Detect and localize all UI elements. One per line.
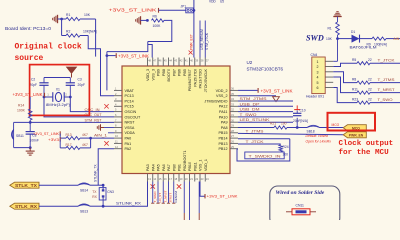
svg-text:NRST: NRST — [125, 121, 136, 125]
svg-text:PB0: PB0 — [172, 164, 176, 171]
svg-text:PB14: PB14 — [218, 137, 227, 141]
svg-text:JTMS/SWDIO: JTMS/SWDIO — [204, 99, 227, 103]
svg-text:SB11: SB11 — [16, 134, 24, 138]
svg-text:PA0: PA0 — [125, 137, 132, 141]
svg-text:PB8: PB8 — [162, 69, 166, 76]
net T_SWO — [238, 116, 293, 118]
svg-text:T_JTCK: T_JTCK — [246, 139, 264, 144]
svg-text:100K: 100K — [153, 24, 162, 28]
svg-text:R2: R2 — [66, 30, 70, 34]
wire STLK_TX row — [39, 184, 78, 186]
mcu bottom pins — [146, 151, 209, 182]
svg-text:R24: R24 — [283, 145, 289, 149]
svg-text:PB7: PB7 — [172, 69, 176, 76]
svg-text:T_SWDIO_IN: T_SWDIO_IN — [249, 153, 281, 158]
svg-text:X1: X1 — [56, 88, 60, 92]
svg-text:100K: 100K — [17, 109, 26, 113]
svg-text:4: 4 — [317, 76, 319, 80]
svg-text:VDD_2: VDD_2 — [216, 89, 228, 93]
svg-text:8MHz(3.2pF): 8MHz(3.2pF) — [46, 103, 70, 107]
svg-text:C3: C3 — [78, 78, 82, 82]
resistor R13 4K7 — [59, 134, 61, 139]
svg-text:STM_JTMS: STM_JTMS — [240, 96, 267, 101]
net flag STLK_TX — [10, 182, 39, 188]
svg-text:AIN_1: AIN_1 — [94, 133, 108, 138]
svg-text:PA8: PA8 — [221, 126, 228, 130]
svg-text:T_SWO: T_SWO — [378, 97, 393, 102]
svg-text:Board Ident: PC13=0: Board Ident: PC13=0 — [5, 26, 52, 31]
svg-text:PWR_EN: PWR_EN — [349, 134, 364, 138]
svg-text:PC14: PC14 — [125, 99, 134, 103]
svg-text:6: 6 — [317, 86, 319, 90]
svg-text:PC13: PC13 — [125, 94, 134, 98]
svg-text:OSCIN: OSCIN — [125, 110, 137, 114]
svg-text:+3V3_ST_LINK: +3V3_ST_LINK — [207, 193, 238, 198]
svg-text:PA12: PA12 — [219, 105, 228, 109]
svg-text:RX: RX — [92, 195, 97, 199]
svg-text:22: 22 — [368, 58, 372, 62]
net flag STLK_RX — [10, 203, 39, 209]
power +3V3 symbol at R6 — [140, 16, 142, 24]
power +3V3 symbol SWD — [333, 16, 341, 18]
svg-text:PB4/NJTRST: PB4/NJTRST — [188, 68, 192, 91]
svg-text:LD_ST: LD_ST — [158, 193, 162, 203]
solder bridge SB11 — [13, 122, 15, 147]
wire STM_JTCK stub — [204, 21, 206, 58]
svg-text:Clock output: Clock output — [339, 140, 394, 148]
resistor R2 10K[N/A] — [61, 19, 63, 36]
wire SB11 bottom — [14, 147, 31, 149]
bottom pin wires with end ticks — [152, 182, 154, 204]
svg-text:4K7: 4K7 — [82, 143, 88, 147]
svg-text:USB_DP: USB_DP — [240, 101, 260, 106]
svg-text:+3V3_ST_LINK: +3V3_ST_LINK — [261, 88, 293, 93]
svg-text:+3V3_ST_LINK: +3V3_ST_LINK — [109, 8, 157, 13]
svg-text:PB6: PB6 — [178, 69, 182, 76]
svg-text:BAT60JFILM: BAT60JFILM — [350, 46, 377, 50]
net STM_JTMS — [238, 100, 293, 102]
node bus junction — [106, 54, 109, 57]
svg-text:10K: 10K — [84, 13, 91, 17]
svg-text:JTCK/SWCLK: JTCK/SWCLK — [204, 68, 208, 92]
wire PB2 down to bottom edge — [183, 182, 185, 214]
svg-text:R23: R23 — [352, 97, 358, 101]
svg-text:RENUM: RENUM — [174, 191, 178, 203]
svg-text:VDD_1: VDD_1 — [204, 159, 208, 171]
svg-text:10K: 10K — [326, 37, 333, 41]
red box original clock source — [30, 65, 90, 116]
boxed net T_SWDIO_IN — [245, 152, 284, 159]
svg-text:T_NRST: T_NRST — [163, 190, 167, 202]
svg-text:PA2: PA2 — [125, 147, 132, 151]
svg-text:STLINK_RX: STLINK_RX — [116, 201, 141, 206]
svg-text:STM_RST: STM_RST — [85, 118, 103, 123]
wire cap top rail — [44, 77, 70, 79]
svg-text:R1: R1 — [66, 13, 70, 17]
no-connect marks on bottom pins — [151, 184, 155, 188]
svg-text:22: 22 — [368, 77, 372, 81]
svg-text:22: 22 — [368, 87, 372, 91]
svg-text:PB2/BOOT1: PB2/BOOT1 — [183, 151, 187, 172]
svg-text:PB9: PB9 — [157, 69, 161, 76]
svg-text:U5: U5 — [220, 0, 224, 4]
svg-text:R9: R9 — [367, 43, 371, 47]
no-connect PC15 — [104, 104, 108, 108]
power label +3V3_ST_LINK at VBAT bus — [107, 55, 116, 57]
svg-text:PA7: PA7 — [167, 164, 171, 171]
svg-text:PA10: PA10 — [219, 115, 228, 119]
svg-text:PA5: PA5 — [157, 164, 161, 171]
svg-text:PA6: PA6 — [162, 164, 166, 171]
svg-text:T_SWO: T_SWO — [153, 191, 157, 203]
net LED_STLINK — [238, 121, 293, 123]
wire SWD rail down to CN4 pin1 — [337, 39, 339, 62]
resistor R3 10K vertical — [336, 22, 340, 35]
svg-text:U2: U2 — [247, 60, 253, 65]
svg-text:2: 2 — [317, 65, 319, 69]
wire AIN_1 down — [90, 138, 92, 148]
svg-text:STM32F103CBT6: STM32F103CBT6 — [247, 66, 284, 71]
svg-text:Wired on Solder Side: Wired on Solder Side — [276, 190, 325, 196]
node ground junction — [29, 146, 32, 149]
svg-text:STLINK_TX: STLINK_TX — [94, 164, 98, 182]
diode D1 BAT60JFILM — [338, 38, 352, 40]
svg-text:CN11: CN11 — [296, 203, 305, 207]
svg-text:+3V3: +3V3 — [48, 137, 60, 142]
solder bridge SB13 — [78, 204, 90, 206]
svg-text:R6: R6 — [153, 14, 157, 18]
svg-text:PA3: PA3 — [146, 164, 150, 171]
svg-text:PA1: PA1 — [125, 142, 132, 146]
node AIN_1 — [89, 137, 92, 140]
svg-text:R11: R11 — [352, 87, 358, 91]
svg-text:R21: R21 — [270, 122, 276, 126]
svg-text:PB10: PB10 — [188, 162, 192, 171]
svg-text:PB11: PB11 — [193, 162, 197, 171]
svg-text:STLK_RX: STLK_RX — [15, 204, 37, 209]
svg-text:5: 5 — [317, 81, 319, 85]
wire VBAT bus vertical — [106, 52, 108, 91]
net flag PWR_EN — [343, 132, 366, 138]
power symbol VSSA — [104, 127, 114, 129]
svg-text:CN4: CN4 — [311, 53, 318, 57]
node SB13 junction — [102, 205, 105, 208]
mcu right pins — [204, 87, 238, 152]
svg-text:LED_STLINK: LED_STLINK — [240, 117, 270, 122]
wire STM_RST rail — [14, 121, 114, 123]
node SWD rail junction — [336, 37, 339, 40]
wire VDDA stub — [108, 132, 114, 134]
svg-text:20pF: 20pF — [30, 83, 38, 87]
mcu U2 STM32F103CBT6 body — [122, 66, 230, 174]
svg-text:PB15: PB15 — [218, 131, 227, 135]
svg-text:VDD: VDD — [209, 0, 216, 4]
net USB_DP — [238, 105, 293, 107]
mcu left pins — [114, 87, 141, 152]
net AIN_1 wire to PA0 — [91, 137, 114, 139]
svg-text:VDDA: VDDA — [125, 131, 136, 135]
svg-text:for the MCU: for the MCU — [339, 149, 390, 157]
svg-text:R13: R13 — [66, 133, 72, 137]
wire CN4 pin1 to SWD rail — [333, 60, 337, 62]
node JP1 output junction — [193, 9, 196, 12]
svg-text:T_JTMS: T_JTMS — [378, 77, 395, 82]
svg-text:PB13: PB13 — [218, 142, 227, 146]
svg-text:SB18: SB18 — [307, 129, 315, 133]
box Wired on Solder Side — [270, 186, 340, 226]
solder bridge SB18 — [297, 127, 307, 129]
mcu top pins — [146, 58, 209, 93]
svg-text:PA9: PA9 — [221, 121, 228, 125]
resistor R11 22 to T_NRST — [333, 77, 357, 93]
wire OSC_OUT — [44, 97, 114, 117]
node C10 junction — [296, 126, 299, 129]
svg-text:100[N/A]: 100[N/A] — [374, 43, 387, 47]
node CN3 pin1 — [102, 184, 105, 187]
ground at crystal caps — [67, 67, 77, 73]
capacitor C3 20pF — [69, 78, 71, 83]
svg-text:100: 100 — [281, 122, 287, 126]
svg-text:PC15: PC15 — [125, 105, 134, 109]
solder bridge SB14 — [78, 183, 90, 185]
wire JP1 down to BOOT0 pin — [193, 10, 195, 57]
svg-text:10K[N/A]: 10K[N/A] — [83, 30, 97, 34]
capacitor C10 20pF[N/A] — [296, 118, 298, 128]
wire PB11 down to bottom edge — [198, 182, 200, 214]
svg-text:D1: D1 — [351, 30, 355, 34]
svg-text:C10: C10 — [300, 109, 306, 113]
svg-text:VDD_3: VDD_3 — [146, 69, 150, 81]
svg-text:R8: R8 — [352, 77, 356, 81]
power +3V3 symbol top-left — [57, 15, 59, 23]
svg-text:JTRST: JTRST — [169, 193, 173, 203]
svg-text:PA11: PA11 — [219, 110, 227, 114]
svg-text:R1: R1 — [328, 27, 332, 31]
wire from R6 node down-left to bus — [107, 42, 148, 52]
connector CN3 — [99, 188, 106, 200]
svg-text:1: 1 — [317, 60, 319, 64]
resistor R5 22 to T_JTCK — [333, 63, 357, 66]
svg-text:R14: R14 — [18, 104, 24, 108]
wire STLINK_RX to PA3 — [103, 182, 147, 207]
svg-text:4K7: 4K7 — [82, 133, 88, 137]
resistor R8 22 to T_JTMS — [333, 72, 357, 83]
resistor R21 100 on MCO — [238, 127, 274, 129]
wire STLK_RX row — [39, 205, 78, 207]
resistor R23 22 to T_SWO — [333, 88, 357, 103]
svg-text:VBAT: VBAT — [125, 89, 135, 93]
svg-text:SB13: SB13 — [80, 209, 88, 213]
node R6 left junction — [146, 19, 149, 22]
svg-text:C2: C2 — [31, 78, 35, 82]
svg-text:PB12: PB12 — [218, 147, 227, 151]
svg-text:PA15/JTDI: PA15/JTDI — [193, 69, 197, 87]
node R14 bottom — [29, 121, 32, 124]
svg-text:PB1: PB1 — [178, 164, 182, 171]
node crystal right — [69, 96, 72, 99]
capacitor C2 20pF — [43, 78, 45, 83]
svg-text:T_NRST: T_NRST — [378, 87, 396, 92]
svg-text:source: source — [15, 54, 44, 63]
svg-text:STLK_TX: STLK_TX — [15, 183, 37, 188]
wire JP1 to top edge — [193, 0, 195, 10]
red box MCO — [328, 113, 376, 131]
ground below C8 — [29, 148, 31, 152]
svg-text:22: 22 — [368, 97, 372, 101]
svg-text:SB14: SB14 — [80, 188, 88, 192]
wire R6 to bus corner — [148, 20, 172, 41]
no-connect PA1 — [104, 141, 108, 145]
net USB_DM — [238, 111, 293, 113]
wire OSC_IN — [70, 97, 114, 112]
svg-text:VSSA: VSSA — [125, 126, 135, 130]
power label +3V3_ST_LINK at VDD_1 — [200, 182, 205, 197]
net flag MCO — [343, 125, 366, 131]
svg-text:OSCOUT: OSCOUT — [125, 115, 142, 119]
svg-text:OSC_IN: OSC_IN — [85, 107, 100, 112]
net T_JTCK row — [238, 138, 290, 140]
node crystal left — [43, 96, 46, 99]
wire T_JTMS to PWR_EN — [238, 133, 343, 134]
svg-text:AIN: AIN — [394, 37, 400, 41]
svg-text:T_JTCK: T_JTCK — [378, 57, 395, 62]
svg-text:+3V3_ST_LINK: +3V3_ST_LINK — [33, 131, 59, 136]
svg-text:PWR_EXT: PWR_EXT — [189, 34, 193, 50]
svg-text:VSS_1: VSS_1 — [199, 160, 203, 171]
power ground VSS_2 — [238, 95, 276, 97]
svg-text:3: 3 — [317, 70, 319, 74]
svg-text:VSS_2: VSS_2 — [216, 94, 227, 98]
svg-text:100: 100 — [283, 153, 289, 157]
resistor R24 100 vertical — [238, 143, 281, 145]
svg-text:+3V3_ST_LINK: +3V3_ST_LINK — [13, 92, 43, 97]
wire JP1 left — [159, 9, 186, 11]
resistor R17 4K7 — [59, 139, 61, 148]
svg-text:R5: R5 — [352, 58, 356, 62]
svg-text:VSS_3: VSS_3 — [151, 69, 155, 80]
resistor R1 10K — [62, 18, 66, 20]
svg-text:R17: R17 — [66, 143, 72, 147]
wire R1 right down to +3V3_ST_LINK rail — [95, 19, 97, 57]
svg-text:T_SWO: T_SWO — [240, 112, 257, 117]
svg-text:100nF: 100nF — [30, 138, 39, 142]
svg-text:PB5: PB5 — [183, 69, 187, 76]
wire PB10 down to bottom edge — [189, 182, 191, 221]
svg-text:PA4: PA4 — [151, 164, 155, 171]
power label +3V3_ST_LINK at VDD_2 — [238, 89, 258, 91]
svg-text:PA13/JTDO: PA13/JTDO — [199, 69, 203, 89]
svg-text:Original clock: Original clock — [15, 43, 82, 52]
svg-text:USB_DM: USB_DM — [240, 107, 260, 112]
wire PB12 loop — [237, 139, 290, 161]
wire branch to pin VSS_3 — [148, 45, 152, 58]
svg-text:MCO: MCO — [332, 123, 340, 127]
wire R2 to PC13 — [88, 36, 114, 96]
svg-text:SWD: SWD — [306, 34, 324, 43]
svg-text:Header 6X1: Header 6X1 — [306, 95, 324, 99]
svg-text:STM_JTCK: STM_JTCK — [205, 32, 209, 50]
svg-text:T_JTMS: T_JTMS — [246, 129, 264, 134]
svg-text:20pF[N/A]: 20pF[N/A] — [293, 119, 308, 123]
svg-text:+3V3_ST_LINK: +3V3_ST_LINK — [118, 54, 149, 59]
svg-text:20pF: 20pF — [78, 83, 86, 87]
node R1/R2 junction — [60, 18, 63, 21]
capacitor C8 100nF — [29, 122, 31, 131]
wire USB_RENUM — [199, 21, 201, 58]
svg-text:USB_RENUM: USB_RENUM — [200, 29, 204, 50]
svg-text:Open for L4xxRx: Open for L4xxRx — [306, 140, 332, 144]
svg-text:BOOT0: BOOT0 — [167, 69, 171, 82]
svg-text:CN3: CN3 — [107, 190, 114, 194]
wire PA2 to STLINK_TX — [98, 149, 114, 185]
resistor R9 100[N/A] — [360, 38, 373, 40]
